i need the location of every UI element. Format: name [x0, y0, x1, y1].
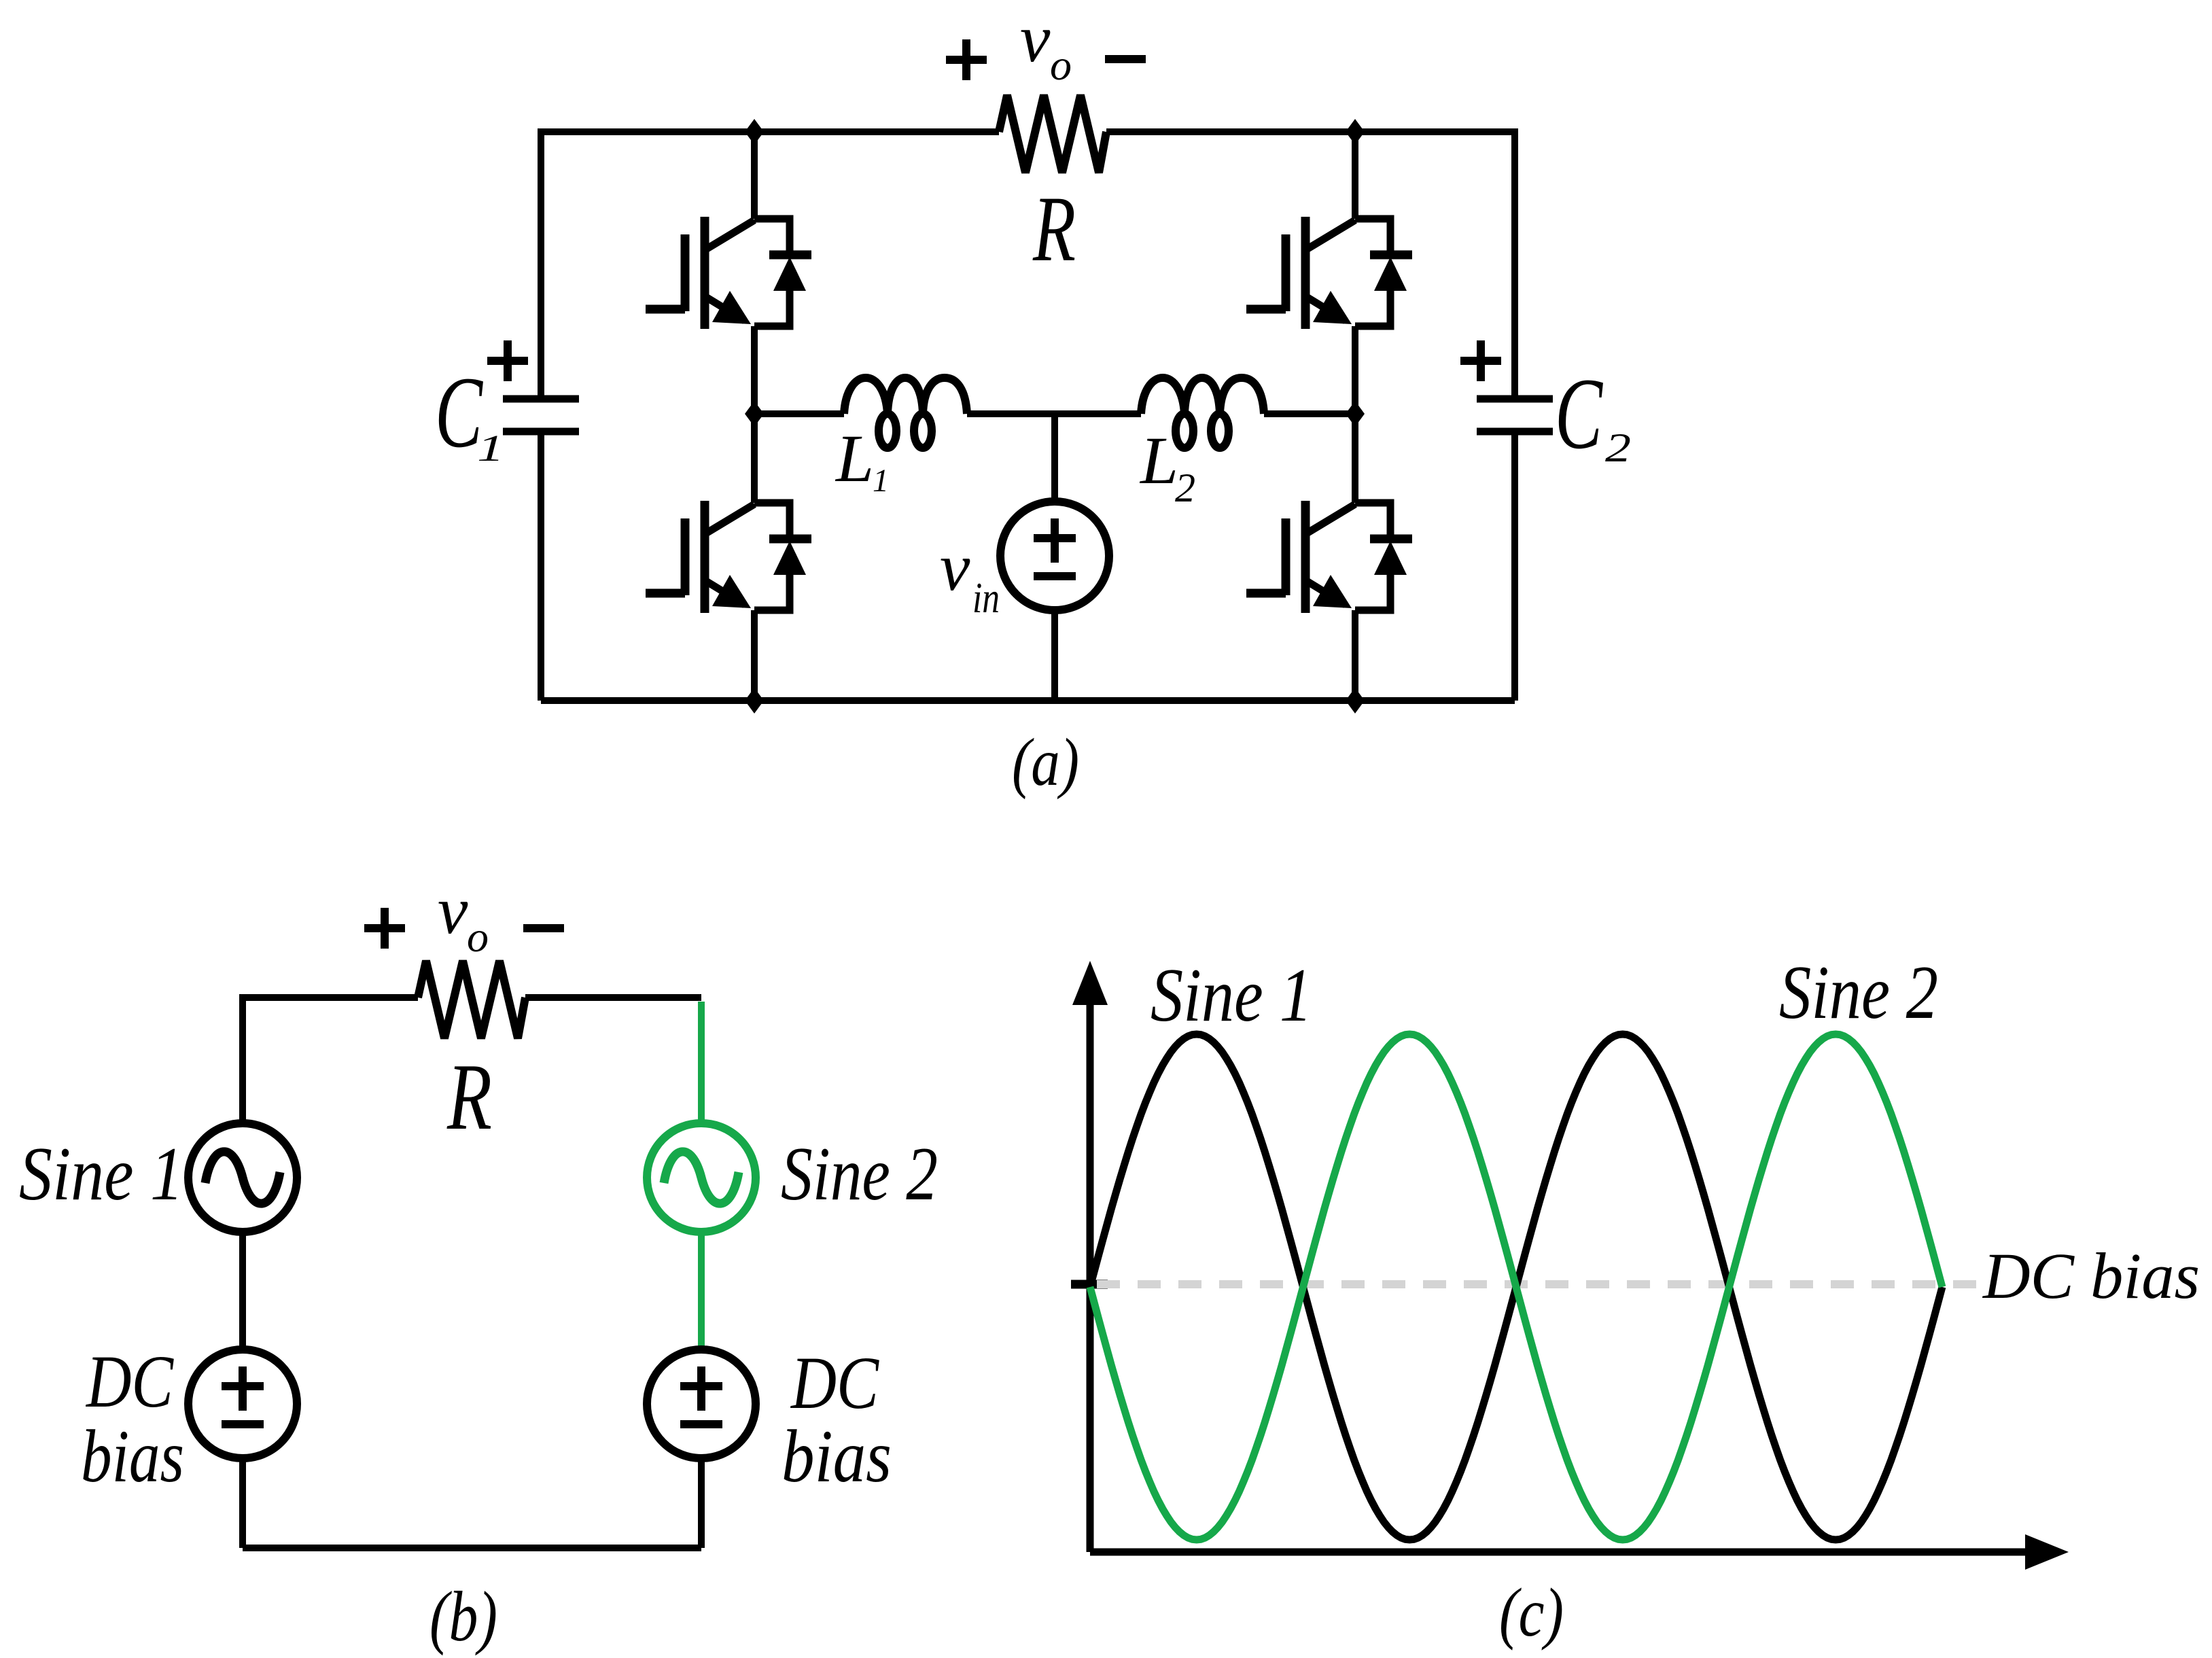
axis x arrowhead [2025, 1534, 2069, 1570]
svg-text:1: 1 [477, 427, 504, 469]
wire left edge [538, 128, 544, 701]
voltage source vin [1000, 501, 1109, 610]
svg-text:Sine 2: Sine 2 [1779, 951, 1938, 1035]
node junction bottom-right [1346, 688, 1365, 713]
svg-text:(c): (c) [1499, 1574, 1564, 1651]
wire middle rail [754, 410, 1355, 417]
svg-text:1: 1 [873, 463, 889, 499]
wire right branch lower black [698, 1458, 705, 1548]
svg-text:C: C [435, 356, 483, 469]
svg-text:v: v [1020, 1, 1051, 76]
svg-text:DC: DC [85, 1340, 174, 1423]
svg-text:v: v [438, 872, 468, 948]
wire right bridge [1352, 132, 1358, 701]
svg-text:Sine 2: Sine 2 [781, 1132, 938, 1216]
svg-text:2: 2 [1605, 425, 1631, 470]
svg-text:2: 2 [1175, 465, 1195, 510]
axis origin tick [1071, 1280, 1108, 1289]
curve Sine 2 green [1090, 1034, 1942, 1540]
svg-text:o: o [1050, 41, 1072, 89]
wire left bridge [751, 132, 758, 701]
svg-text:R: R [1032, 177, 1076, 281]
curve Sine 1 black [1090, 1034, 1942, 1540]
svg-text:DC: DC [790, 1341, 879, 1424]
inductor L1 [844, 378, 967, 414]
node junction mid-right [1346, 401, 1365, 427]
wire vin stem [1051, 414, 1058, 701]
wire right branch green [698, 1002, 705, 1350]
node junction top-left [745, 119, 764, 145]
svg-text:bias: bias [81, 1415, 184, 1498]
dashed DC bias line [1097, 1280, 1978, 1288]
svg-text:C: C [1555, 357, 1603, 470]
wire bottom rail [541, 697, 1515, 704]
svg-text:bias: bias [782, 1415, 892, 1498]
transistor Q1 top-left [646, 217, 811, 329]
svg-text:v: v [940, 529, 970, 605]
source DC bias right [647, 1350, 756, 1458]
svg-text:Sine 1: Sine 1 [19, 1132, 183, 1216]
axis y [1090, 999, 2031, 1552]
label plus vo (b) [364, 908, 564, 949]
source DC bias left [188, 1350, 297, 1458]
wire top rail b [243, 994, 701, 1001]
wire bottom rail b [243, 1545, 701, 1551]
svg-text:R: R [446, 1044, 492, 1150]
transistor Q2 bottom-left [646, 501, 811, 613]
wire top rail right segment [1106, 128, 1515, 135]
svg-text:L: L [835, 421, 874, 496]
source Sine 1 [188, 1123, 297, 1232]
resistor R (part a) [999, 95, 1106, 173]
svg-text:in: in [972, 574, 1000, 622]
wire left branch b [239, 994, 246, 1548]
node junction bottom-left [745, 688, 764, 713]
label plus C1 [487, 340, 528, 381]
inductor L2 [1141, 378, 1264, 414]
wire top rail left segment [541, 128, 999, 135]
source Sine 2 green [647, 1123, 756, 1232]
transistor Q3 top-right [1246, 217, 1412, 329]
svg-text:L: L [1139, 423, 1178, 498]
svg-text:(b): (b) [429, 1576, 497, 1656]
capacitor C2 plates [1477, 399, 1553, 431]
transistor Q4 bottom-right [1246, 501, 1412, 613]
svg-text:(a): (a) [1012, 724, 1079, 800]
svg-text:DC bias: DC bias [1982, 1239, 2200, 1312]
svg-text:o: o [467, 913, 489, 961]
node junction mid-left [745, 401, 764, 427]
svg-text:Sine 1: Sine 1 [1151, 953, 1312, 1038]
label plus C2 [1460, 340, 1501, 381]
wire right edge [1511, 128, 1518, 701]
axis y arrowhead [1072, 961, 1108, 1005]
capacitor C1 plates [503, 399, 579, 431]
node junction top-right [1346, 119, 1365, 145]
resistor R (part b) [418, 961, 525, 1038]
label plus vo (a) [946, 39, 1146, 80]
